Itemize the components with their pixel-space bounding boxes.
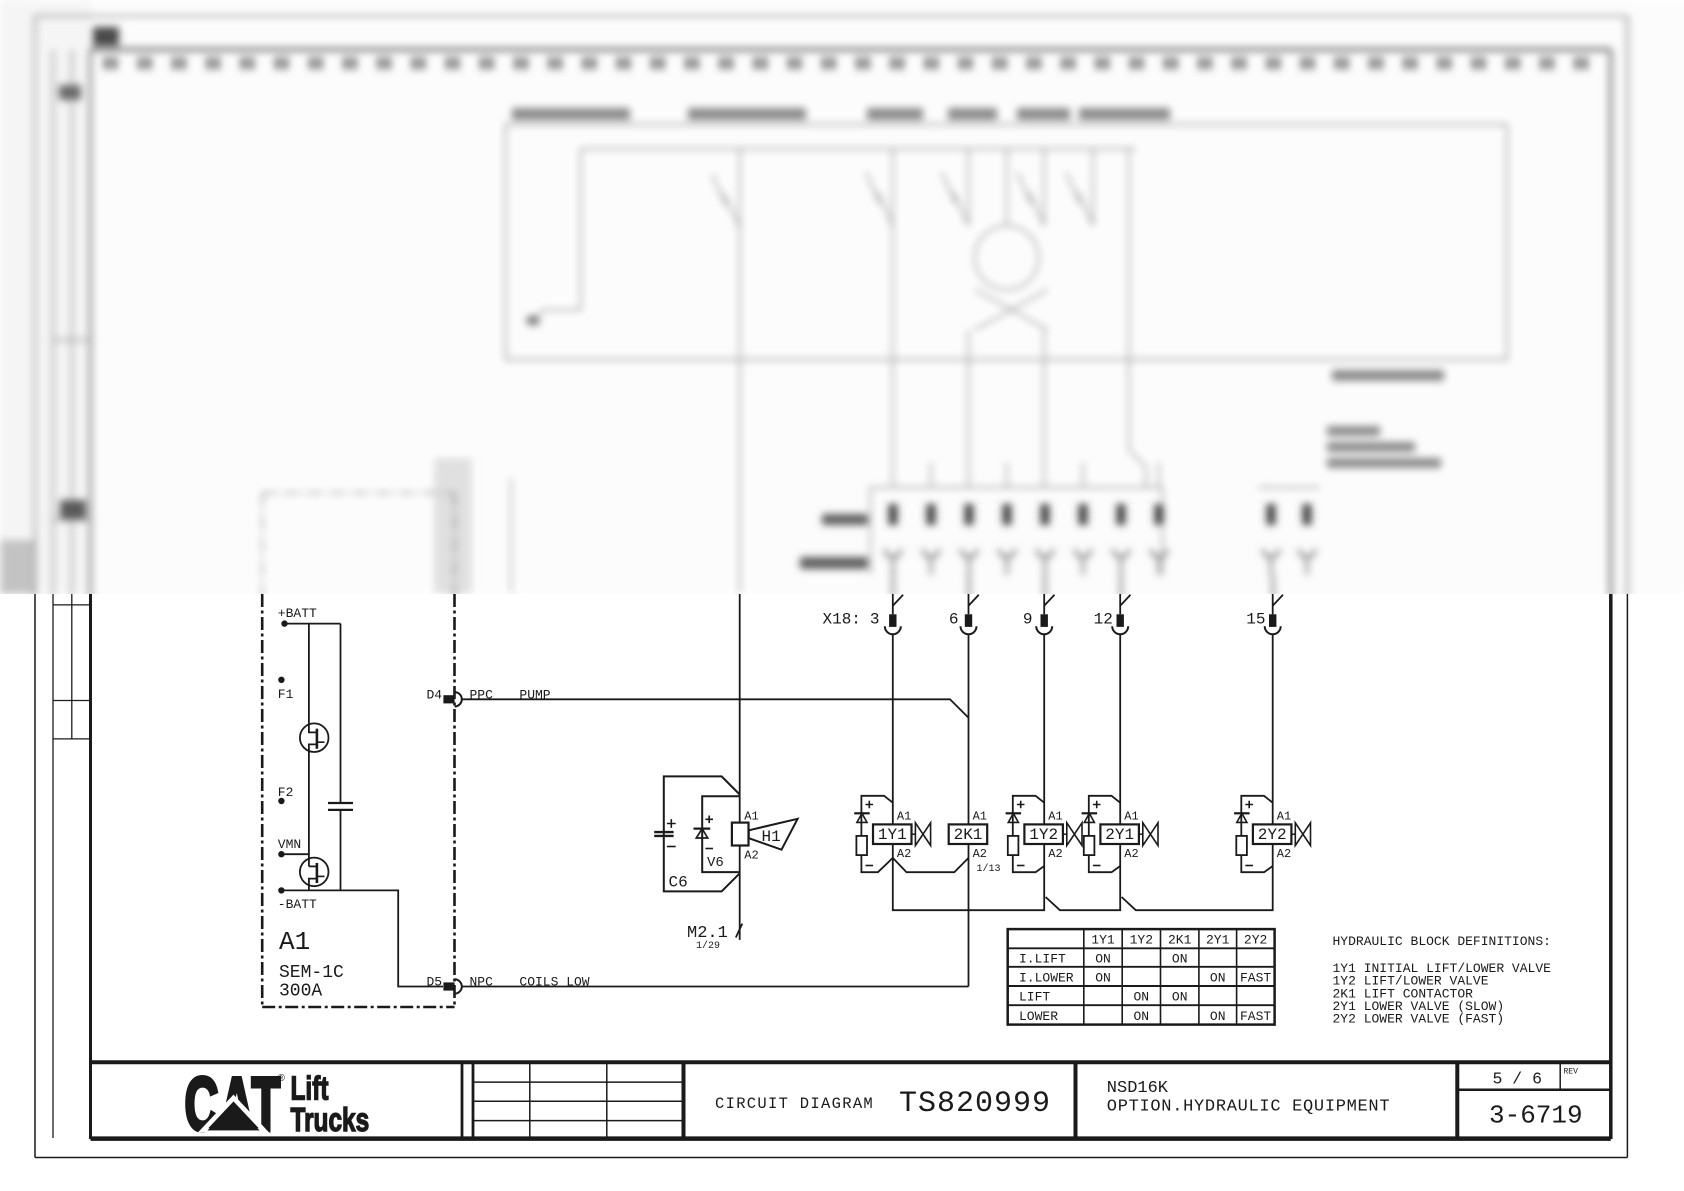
blurred interior wires — [581, 148, 1136, 150]
transistor V1 (upper MOSFET) — [300, 723, 329, 752]
svg-text:C6: C6 — [669, 874, 688, 892]
svg-text:3: 3 — [870, 611, 880, 629]
svg-text:LOWER: LOWER — [1019, 1009, 1058, 1024]
diode 1Y2 suppression — [1006, 812, 1022, 814]
diode 1Y1 suppression — [854, 812, 870, 814]
wire PUMP line — [462, 699, 969, 718]
diode V6 enclosure — [702, 796, 740, 872]
svg-text:ON: ON — [1133, 1009, 1149, 1024]
wire VMN tap — [281, 853, 309, 855]
contactor coil 2K1 — [949, 824, 988, 844]
polarity marks 1Y1 — [866, 801, 874, 809]
sheet outer border — [34, 594, 36, 1158]
wire pin12 to 2Y1 — [1119, 634, 1121, 866]
wire pin3 to 1Y1 — [892, 634, 894, 858]
svg-text:A1: A1 — [1277, 809, 1291, 823]
svg-text:2Y2: 2Y2 — [1244, 933, 1267, 948]
svg-text:Trucks: Trucks — [291, 1103, 370, 1139]
blurred relay panel dashed box — [506, 124, 1508, 359]
svg-text:A1: A1 — [897, 809, 911, 823]
blurred background washes — [0, 0, 1684, 594]
svg-text:ON: ON — [1172, 990, 1188, 1005]
logo CAT triangle — [203, 1098, 264, 1130]
wire MOSFET rail upper — [309, 624, 317, 733]
wire M2.1 vertical — [739, 594, 741, 940]
connector pin X18:9 — [1043, 594, 1045, 614]
valve symbol 2Y2 — [1291, 833, 1295, 835]
wire A2 bus jog at 1Y2 — [1046, 866, 1121, 910]
svg-text:I.LIFT: I.LIFT — [1019, 952, 1066, 967]
connector pin X18:12 — [1119, 594, 1121, 614]
valve 2Y1 suppression enclosure — [1089, 796, 1120, 872]
capacitor C internal — [340, 624, 342, 803]
blurred right texts — [1332, 370, 1444, 381]
svg-text:-BATT: -BATT — [278, 897, 317, 912]
terminal D5 — [443, 982, 454, 990]
resistor 1Y2 suppression — [1008, 836, 1019, 855]
svg-text:REV: REV — [1564, 1068, 1579, 1077]
svg-text:TS820999: TS820999 — [899, 1087, 1051, 1121]
svg-text:2K1: 2K1 — [954, 826, 983, 844]
diode 2Y1 suppression — [1082, 812, 1098, 814]
resistor 2Y2 suppression — [1236, 836, 1247, 855]
wire COILS LOW line — [462, 986, 969, 988]
svg-text:ON: ON — [1210, 1009, 1226, 1024]
coil box 1Y1 — [873, 824, 912, 844]
svg-text:HYDRAULIC BLOCK DEFINITIONS:: HYDRAULIC BLOCK DEFINITIONS: — [1333, 934, 1551, 949]
svg-text:V6: V6 — [707, 855, 724, 871]
terminal D4 — [443, 695, 454, 703]
svg-text:A2: A2 — [1048, 847, 1062, 861]
logo CAT Lift Trucks — [185, 1063, 282, 1147]
svg-text:A1: A1 — [744, 810, 758, 824]
wire pin9 to 1Y2 — [1043, 634, 1045, 866]
wire pin15 to 2Y2 — [1272, 634, 1274, 866]
svg-text:ON: ON — [1210, 971, 1226, 986]
svg-text:NSD16K: NSD16K — [1107, 1079, 1169, 1098]
wire A2 bus jog at 2Y1 — [1122, 866, 1273, 910]
svg-text:A2: A2 — [1277, 847, 1291, 861]
svg-text:6: 6 — [949, 611, 959, 629]
svg-text:5 / 6: 5 / 6 — [1493, 1070, 1543, 1089]
svg-text:A2: A2 — [973, 847, 987, 861]
svg-text:OPTION.HYDRAULIC EQUIPMENT: OPTION.HYDRAULIC EQUIPMENT — [1107, 1098, 1390, 1117]
valve symbol 1Y1 — [912, 833, 916, 835]
wire break slash M2.1 — [736, 924, 743, 938]
svg-text:2Y2: 2Y2 — [1258, 826, 1287, 844]
wire -BATT to NPC — [281, 890, 443, 986]
svg-text:1/29: 1/29 — [696, 940, 720, 952]
svg-text:F1: F1 — [278, 687, 294, 702]
valve 2Y2 suppression enclosure — [1241, 796, 1272, 872]
capacitor C6 — [654, 831, 673, 833]
title block frame — [91, 1060, 1611, 1064]
capacitor C6 enclosure — [664, 776, 740, 891]
svg-text:FAST: FAST — [1240, 1009, 1271, 1024]
svg-text:1Y1: 1Y1 — [878, 826, 907, 844]
svg-text:2Y2 LOWER VALVE (FAST): 2Y2 LOWER VALVE (FAST) — [1333, 1012, 1505, 1027]
svg-text:12: 12 — [1094, 611, 1113, 629]
coil box 1Y2 — [1024, 824, 1063, 844]
node F1 — [278, 677, 284, 683]
svg-text:ON: ON — [1095, 971, 1111, 986]
sheet inner thick border — [89, 594, 92, 1139]
svg-text:2Y1: 2Y1 — [1105, 826, 1134, 844]
svg-text:A1: A1 — [1124, 809, 1138, 823]
svg-text:A2: A2 — [744, 849, 758, 863]
svg-text:CIRCUIT DIAGRAM: CIRCUIT DIAGRAM — [715, 1095, 874, 1113]
svg-text:H1: H1 — [762, 828, 781, 846]
valve 1Y2 suppression enclosure — [1013, 796, 1044, 872]
svg-text:15: 15 — [1246, 611, 1265, 629]
svg-text:1/13: 1/13 — [977, 863, 1001, 875]
svg-text:300A: 300A — [279, 982, 322, 1002]
valve 1Y1 suppression enclosure — [861, 796, 892, 872]
svg-text:A1: A1 — [973, 809, 987, 823]
connector pin X18:6 — [968, 594, 970, 614]
wire pin6 to 2K1 — [968, 634, 970, 986]
polarity marks V6 — [705, 816, 713, 824]
blurred A1 box top — [261, 493, 263, 600]
valve symbol 1Y2 — [1063, 833, 1067, 835]
svg-text:A1: A1 — [1048, 809, 1062, 823]
polarity marks 1Y2 — [1017, 801, 1025, 809]
svg-text:A1: A1 — [279, 927, 310, 957]
wire +BATT to internal rails — [285, 623, 341, 625]
svg-text:X18:: X18: — [823, 611, 861, 629]
svg-text:FAST: FAST — [1240, 971, 1271, 986]
valve symbol 2Y1 — [1139, 833, 1143, 835]
svg-text:VMN: VMN — [278, 837, 301, 852]
svg-text:2K1: 2K1 — [1168, 933, 1192, 948]
svg-text:A2: A2 — [897, 847, 911, 861]
svg-text:D4: D4 — [427, 687, 443, 702]
svg-text:ON: ON — [1172, 952, 1188, 967]
coil box 2Y1 — [1100, 824, 1139, 844]
svg-text:1Y2: 1Y2 — [1130, 933, 1153, 948]
horn driver H1 element — [732, 823, 749, 846]
svg-text:®: ® — [278, 1073, 286, 1084]
svg-text:F2: F2 — [278, 785, 294, 800]
svg-text:9: 9 — [1023, 611, 1033, 629]
wire A2 bus segment 1 — [893, 858, 1044, 910]
svg-text:3-6719: 3-6719 — [1489, 1101, 1583, 1131]
svg-text:I.LOWER: I.LOWER — [1019, 971, 1074, 986]
connector pin X18:15 — [1272, 594, 1274, 614]
polarity marks 2Y1 — [1093, 801, 1101, 809]
resistor 2Y1 suppression — [1084, 836, 1095, 855]
left margin column — [52, 594, 54, 1138]
controller A1 dash-dot enclosure — [261, 594, 264, 1007]
table hydraulic logic — [1008, 929, 1275, 1025]
node +BATT — [281, 620, 287, 626]
transistor V2 (lower MOSFET) — [300, 858, 329, 887]
polarity marks 2Y2 — [1245, 801, 1253, 809]
svg-text:+BATT: +BATT — [278, 606, 317, 621]
svg-text:D5: D5 — [427, 975, 443, 990]
wire 1Y1.A2 to 2K1.A2 loop — [893, 858, 969, 872]
node -BATT — [278, 887, 284, 893]
connector pin X18:3 — [892, 594, 894, 614]
svg-text:SEM-1C: SEM-1C — [279, 963, 344, 983]
coil box 2Y2 — [1253, 824, 1292, 844]
svg-text:ON: ON — [1133, 990, 1149, 1005]
resistor 1Y1 suppression — [856, 836, 867, 855]
blurred labels — [512, 108, 630, 120]
node VMN — [278, 851, 284, 857]
svg-text:1Y2: 1Y2 — [1029, 826, 1058, 844]
svg-text:ON: ON — [1095, 952, 1111, 967]
svg-text:1Y1: 1Y1 — [1091, 933, 1115, 948]
node F2 — [278, 798, 284, 804]
blurred connector block — [870, 486, 1162, 488]
horn H1 — [749, 819, 798, 850]
diode V6 — [694, 827, 711, 829]
polarity marks C6 — [667, 819, 676, 828]
diode 2Y2 suppression — [1234, 812, 1250, 814]
svg-text:LIFT: LIFT — [1019, 990, 1050, 1005]
svg-text:2Y1: 2Y1 — [1206, 933, 1230, 948]
blurred frame top — [35, 15, 1627, 17]
blurred motor — [1006, 149, 1008, 226]
svg-text:A2: A2 — [1124, 847, 1138, 861]
